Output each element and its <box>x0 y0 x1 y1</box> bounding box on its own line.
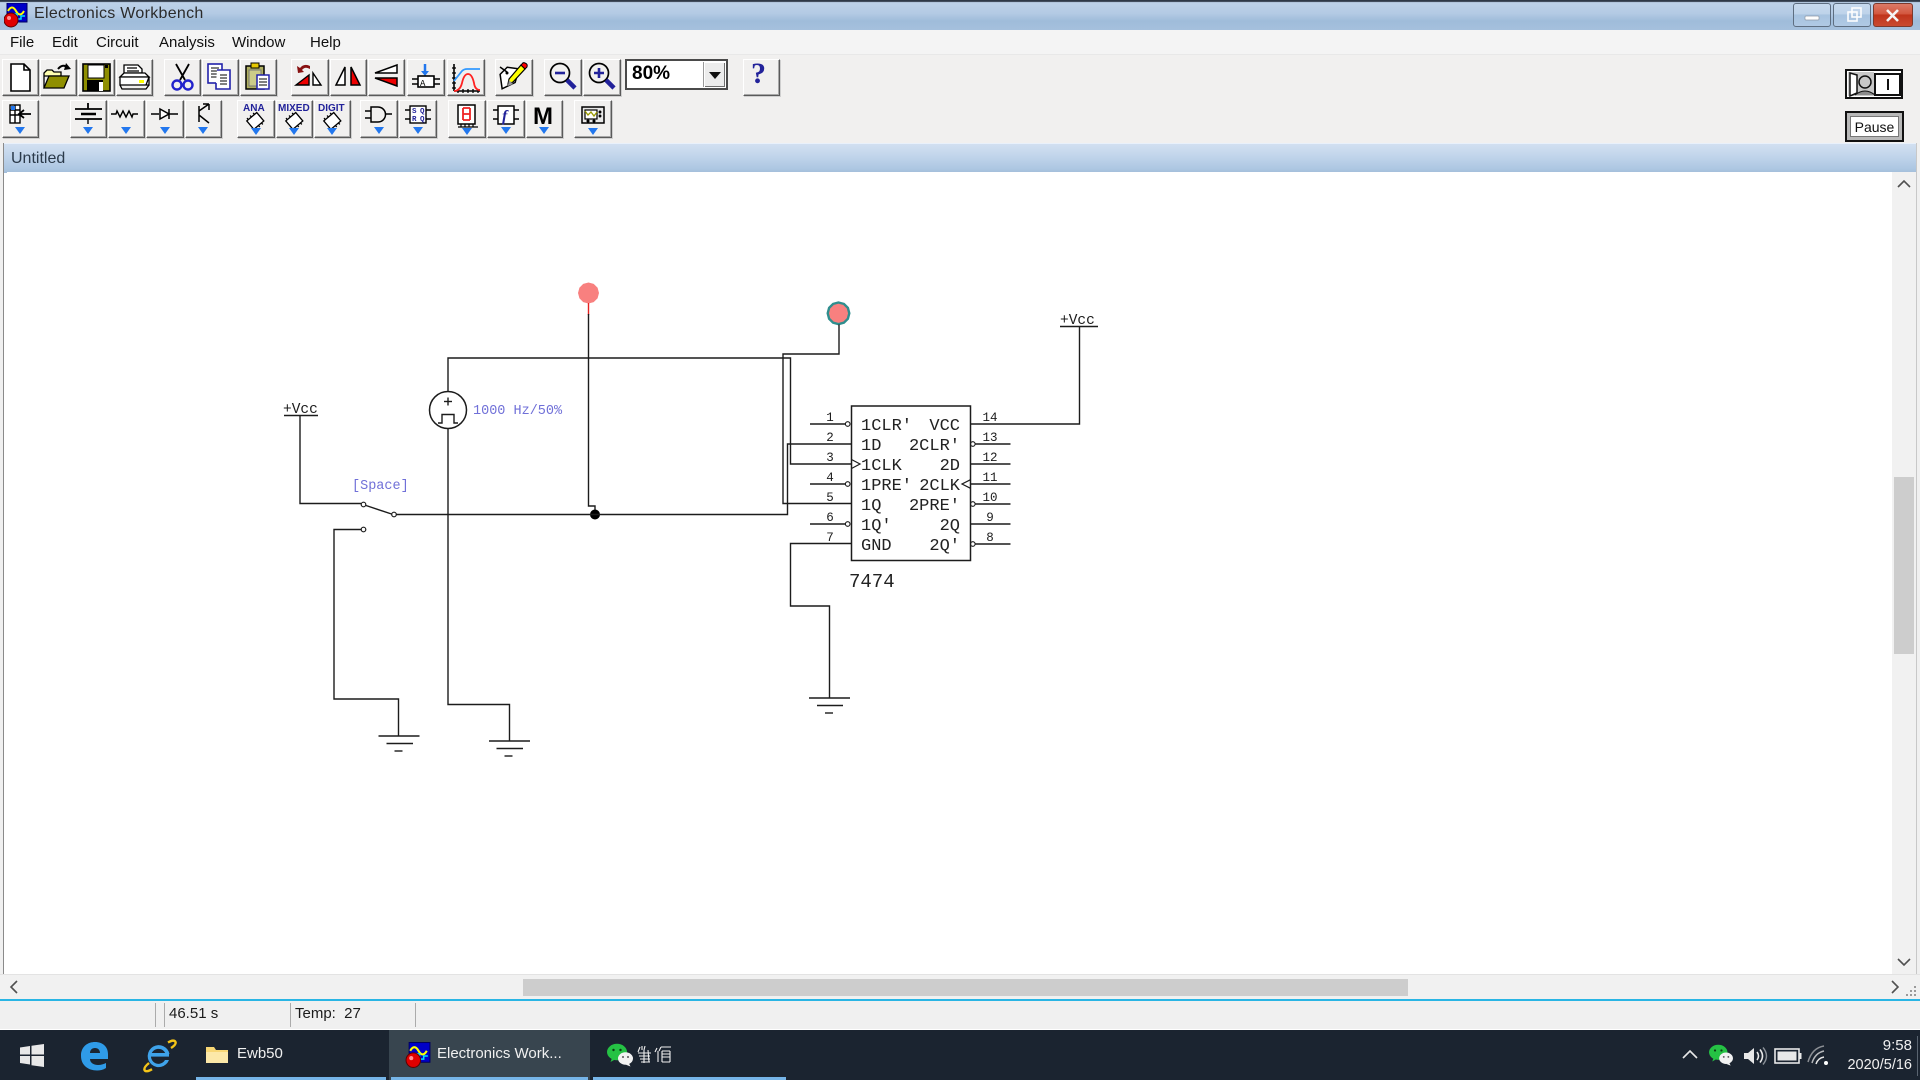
start button <box>19 1043 45 1068</box>
wire +Vcc T1 to switch <box>300 416 361 504</box>
svg-text:VCC: VCC <box>929 417 960 436</box>
IC U1 7474 body <box>852 406 971 561</box>
svg-text:[Space]: [Space] <box>352 479 409 494</box>
app icon <box>4 3 30 28</box>
tray speaker <box>1742 1046 1768 1066</box>
pause button <box>1845 111 1904 142</box>
wire clock top to 1CLK (pin 3) <box>448 358 851 464</box>
wechat text 微信 drawn as strokes <box>637 1046 673 1064</box>
edge icon <box>79 1040 111 1072</box>
svg-text:1Q: 1Q <box>861 497 881 516</box>
svg-text:7474: 7474 <box>849 571 895 593</box>
ground G2 <box>489 741 530 756</box>
EWB task icon <box>405 1042 432 1069</box>
folder task icon <box>205 1044 229 1066</box>
svg-text:4: 4 <box>826 471 834 485</box>
pin numbers <box>826 411 997 545</box>
pin 13 stub + bubble <box>971 442 1011 447</box>
svg-text:1D: 1D <box>861 437 881 456</box>
wire clock bottom to ground G2 <box>448 429 510 742</box>
svg-text:5: 5 <box>826 491 834 505</box>
clock <box>1846 1037 1912 1054</box>
pin 11 clock triangle <box>962 480 971 489</box>
tray chevron <box>1680 1048 1700 1062</box>
svg-text:GND: GND <box>861 537 892 556</box>
IC pin labels <box>849 417 961 593</box>
pin 6 stub + bubble <box>810 522 850 527</box>
pin 1 stub + active-low bubble <box>810 422 850 427</box>
svg-text:1Q': 1Q' <box>861 517 892 536</box>
pin 11 stub <box>971 483 1011 485</box>
status bar <box>0 999 1920 1029</box>
pin 4 stub + bubble <box>810 482 850 487</box>
svg-text:2CLK: 2CLK <box>919 477 961 496</box>
svg-text:11: 11 <box>982 471 997 485</box>
probe P2 (red voltage probe with teal outline, upper right) <box>828 303 850 325</box>
tray wifi <box>1806 1044 1832 1066</box>
menu bar <box>0 30 1920 55</box>
svg-text:7: 7 <box>826 531 834 545</box>
tray wechat <box>1708 1044 1734 1067</box>
pin 3 clock triangle <box>852 460 861 469</box>
power switch <box>1845 69 1903 99</box>
svg-text:14: 14 <box>982 411 997 425</box>
pin 8 stub + bubble <box>971 542 1011 547</box>
ie icon <box>141 1039 177 1073</box>
+Vcc terminal T1 (left) <box>283 402 318 418</box>
svg-text:3: 3 <box>826 451 834 465</box>
svg-text:12: 12 <box>982 451 997 465</box>
svg-text:2: 2 <box>826 431 834 445</box>
pin 10 stub + bubble <box>971 502 1011 507</box>
svg-text:9: 9 <box>986 511 994 525</box>
document tab <box>4 143 1917 173</box>
wire switch lower throw to ground G1 <box>334 530 399 737</box>
svg-text:13: 13 <box>982 431 997 445</box>
ground G3 <box>809 698 850 713</box>
svg-text:8: 8 <box>986 531 994 545</box>
svg-text:2D: 2D <box>940 457 960 476</box>
svg-text:6: 6 <box>826 511 834 525</box>
toolbars <box>0 55 1920 99</box>
pin 9 stub <box>971 523 1011 525</box>
+Vcc terminal T2 (right) <box>1060 313 1098 329</box>
wire switch common to 1D (pin 2), through junction <box>397 444 852 515</box>
probe P1 (red voltage probe, top centre) <box>578 283 599 316</box>
svg-text:1CLR': 1CLR' <box>861 417 912 436</box>
svg-text:10: 10 <box>982 491 997 505</box>
active EWB task button background <box>389 1030 590 1080</box>
wire probe P2 to pin 5 (1Q) <box>783 325 851 504</box>
tray battery <box>1774 1048 1802 1064</box>
svg-text:1: 1 <box>826 411 834 425</box>
scrollbars <box>1892 172 1916 974</box>
zoom combo <box>625 59 728 90</box>
taskbar <box>0 1030 1920 1080</box>
application title bar <box>0 0 1920 30</box>
svg-text:1PRE': 1PRE' <box>861 477 912 496</box>
svg-text:2Q: 2Q <box>940 517 960 536</box>
wire pin 14 VCC to +Vcc T2 <box>971 327 1080 424</box>
svg-text:1CLK: 1CLK <box>861 457 903 476</box>
ground G1 <box>379 736 420 751</box>
wechat task icon <box>606 1043 634 1068</box>
task stripes <box>196 1077 386 1080</box>
switch S1 [Space] <box>361 502 396 532</box>
pin 12 stub <box>971 463 1011 465</box>
svg-text:2Q': 2Q' <box>929 537 960 556</box>
svg-text:2PRE': 2PRE' <box>909 497 960 516</box>
wire probe P1 to junction <box>589 314 596 515</box>
window buttons <box>1793 3 1831 27</box>
svg-text:1000 Hz/50%: 1000 Hz/50% <box>473 404 563 419</box>
wire pin 7 GND to ground G3 <box>791 544 852 699</box>
clock source V1 <box>430 392 467 429</box>
svg-text:2CLR': 2CLR' <box>909 437 960 456</box>
junction node <box>590 510 600 520</box>
